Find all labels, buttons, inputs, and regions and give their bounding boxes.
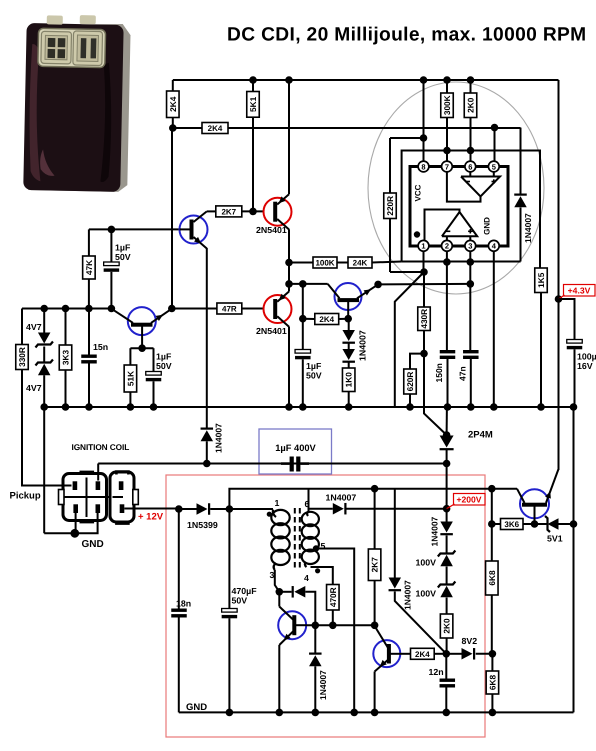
wire base rail y229 bbox=[89, 228, 181, 230]
wire bus to connector gnd bbox=[43, 407, 45, 533]
wire bottom ground bus bbox=[179, 711, 574, 713]
wire 1uF a bottom bbox=[110, 272, 112, 309]
svg-text:18n: 18n bbox=[176, 599, 191, 609]
IC pin 3 bbox=[465, 240, 476, 251]
node sense/zeners bbox=[40, 305, 48, 313]
svg-text:150n: 150n bbox=[434, 363, 444, 382]
svg-text:3: 3 bbox=[468, 242, 472, 251]
label +200V bbox=[454, 494, 486, 506]
svg-text:2K0: 2K0 bbox=[442, 618, 452, 634]
transistor Q5 (blue NPN pickup) bbox=[128, 307, 156, 335]
svg-text:1: 1 bbox=[421, 242, 425, 251]
node Q4 base / 2K4 bbox=[344, 315, 352, 323]
wire base to 5V1 bbox=[535, 523, 548, 525]
T1 phase dot secondary bbox=[315, 568, 320, 573]
wire chain b bbox=[446, 536, 448, 554]
svg-text:51K: 51K bbox=[125, 371, 135, 386]
svg-text:IGNITION COIL: IGNITION COIL bbox=[72, 442, 130, 452]
svg-text:470R: 470R bbox=[328, 587, 338, 607]
wire 3K3 bottom bbox=[65, 370, 67, 407]
capacitor C 1uF 50V a bbox=[104, 262, 120, 266]
resistor 2K4 (horizontal b) bbox=[315, 314, 339, 325]
wire 47R rail bbox=[172, 308, 217, 310]
resistor 220R (vertical) bbox=[384, 193, 397, 219]
svg-text:VCC: VCC bbox=[414, 184, 423, 201]
resistor 470R (vertical) bbox=[327, 585, 340, 611]
wire 100K rail a bbox=[289, 262, 313, 264]
svg-text:50V: 50V bbox=[232, 596, 248, 606]
node 3K6 row left bbox=[488, 520, 496, 528]
node bus/150n bbox=[444, 403, 452, 411]
node bus/Q3 collector bbox=[285, 403, 293, 411]
wire T1 pin5 tap bbox=[317, 549, 354, 713]
wire 6K8a wires bbox=[491, 524, 493, 561]
svg-text:16V: 16V bbox=[577, 361, 593, 371]
svg-text:15n: 15n bbox=[93, 342, 108, 352]
node y284 left a bbox=[285, 280, 293, 288]
wire 1K0 to bus bbox=[348, 392, 350, 408]
wire 300K top bbox=[446, 80, 448, 93]
wire Q2 emitter up bbox=[288, 80, 290, 194]
resistor 6K8a (vertical) bbox=[486, 561, 499, 595]
zener 4V7 lower bbox=[35, 360, 53, 366]
node pin8 column / 220R wire bbox=[420, 134, 428, 142]
wire 3K6 stub bbox=[492, 523, 501, 525]
wire D2 to coil wire bbox=[206, 441, 208, 463]
diode D10 1N4007 bbox=[440, 522, 453, 533]
resistor 24K (horizontal) bbox=[348, 257, 372, 268]
node 8V2/6K8 row bbox=[489, 650, 497, 658]
svg-text:47R: 47R bbox=[222, 305, 237, 314]
svg-text:2N5401: 2N5401 bbox=[256, 326, 287, 336]
svg-text:2K4: 2K4 bbox=[168, 96, 178, 112]
node bus/pin4 bbox=[490, 403, 498, 411]
resistor 3K3 (vertical) bbox=[59, 345, 72, 370]
IC pin1 marker dot bbox=[414, 231, 420, 237]
node sense/47R bbox=[168, 305, 176, 313]
diode D3 1N4007 (right of IC) bbox=[514, 194, 527, 196]
svg-text:1: 1 bbox=[275, 498, 280, 508]
wire 5V1 to right col bbox=[559, 523, 574, 525]
wire 5K1 top bbox=[252, 80, 254, 92]
T1 phase dot primary bbox=[267, 512, 272, 517]
svg-text:2P4M: 2P4M bbox=[468, 430, 493, 441]
node +200V bbox=[443, 505, 451, 513]
wire 470uF top bbox=[228, 509, 230, 609]
svg-text:8: 8 bbox=[421, 162, 425, 171]
node bus/1K0 bbox=[345, 403, 353, 411]
wire to 1N5399 bbox=[179, 508, 197, 510]
wire base row y625 bbox=[306, 624, 375, 626]
wire 300K to pin7 bbox=[446, 118, 448, 162]
wire 12n top bbox=[445, 654, 447, 679]
wire 12n bottom bbox=[445, 688, 447, 713]
wire 470R to base row bbox=[332, 610, 334, 625]
wire D9 diagonal bbox=[395, 592, 447, 654]
wire chain d bbox=[446, 598, 448, 615]
transistor Q2 2N5401 (red PNP) bbox=[264, 198, 292, 226]
diode D5 1N4007 b bbox=[342, 349, 355, 360]
wire 15n bottom bbox=[88, 364, 90, 408]
resistor 300K (vertical) bbox=[441, 93, 454, 118]
node bbus/470uF bbox=[226, 709, 234, 717]
wire bias column down bbox=[171, 128, 173, 309]
resistor 5K1 (vertical) bbox=[247, 92, 260, 118]
wire zener stub top bbox=[43, 309, 45, 333]
wire 47n to bus bbox=[470, 359, 472, 407]
node 2K0/2K4/8V2/12n bbox=[443, 650, 451, 658]
wire D8 column bbox=[314, 625, 316, 652]
wire Q8 emitter bbox=[374, 672, 376, 713]
wire BC pin to gnd bbox=[44, 513, 97, 533]
zener 4V7 upper bbox=[38, 333, 51, 344]
wire ground bus bbox=[44, 406, 573, 408]
wire 2K7c bottom bbox=[374, 581, 376, 626]
wire Q2 collector down bbox=[288, 229, 290, 262]
svg-text:1N4007: 1N4007 bbox=[430, 516, 440, 546]
wire 18n top bbox=[178, 509, 180, 609]
node 12V/18n bbox=[175, 505, 183, 513]
wire right rail down bbox=[558, 80, 560, 470]
op-amp IC U1 body bbox=[410, 167, 508, 247]
wire 47R to Q3 base bbox=[242, 308, 265, 310]
svg-text:50V: 50V bbox=[115, 252, 131, 262]
wire Q3 emitter up bbox=[288, 284, 290, 292]
node y284 right / Q4 emitter bbox=[374, 281, 382, 289]
wire T1 pin6 up bbox=[308, 489, 310, 512]
transistor Q3 2N5401 (red PNP) bbox=[264, 295, 292, 323]
svg-text:47n: 47n bbox=[458, 366, 468, 381]
svg-text:Pickup: Pickup bbox=[10, 491, 41, 502]
wire 24K to IC rail bbox=[372, 262, 402, 263]
wire y284 right rail bbox=[378, 283, 470, 286]
node bbus/6K8b bbox=[489, 709, 497, 717]
IC pin 1 bbox=[418, 240, 429, 251]
wire 1uF b bottom bbox=[153, 381, 155, 407]
node base row/2K7c bbox=[371, 622, 379, 630]
node coil/thyristor bbox=[443, 460, 451, 468]
capacitor C 1uF 50V c bbox=[295, 350, 311, 354]
wire 2K7 to node bbox=[242, 210, 265, 212]
wire chain c bbox=[446, 567, 448, 585]
capacitor main 1uF400V plates bbox=[290, 457, 294, 472]
svg-text:1K0: 1K0 bbox=[344, 372, 354, 388]
resistor 2K4 (vertical) bbox=[167, 91, 180, 118]
wire ignition coil line bbox=[98, 463, 446, 465]
svg-text:50V: 50V bbox=[156, 361, 172, 371]
wire pin2 column to 150n bbox=[446, 262, 448, 350]
wire T1 pin3 down bbox=[275, 570, 280, 592]
capacitor 18n bbox=[171, 609, 187, 612]
IC pin 6 bbox=[465, 161, 476, 172]
resistor 100K (horizontal) bbox=[313, 257, 337, 268]
svg-text:2K4: 2K4 bbox=[208, 124, 223, 133]
node coil/D2 bbox=[203, 460, 211, 468]
resistor 3K6 (horizontal) bbox=[501, 519, 524, 530]
node sense/47K-15n bbox=[85, 305, 93, 313]
svg-text:2K4: 2K4 bbox=[415, 650, 430, 659]
wire 430R to thyristor diag bbox=[424, 354, 447, 435]
node Q5 base bbox=[138, 344, 146, 352]
node top bus / 300K bbox=[443, 76, 451, 84]
svg-text:5: 5 bbox=[492, 162, 496, 171]
node pin3 lower bbox=[467, 280, 475, 288]
wire y138 stub bbox=[390, 137, 424, 139]
svg-text:8V2: 8V2 bbox=[462, 636, 478, 646]
transistor Q1 (blue NPN) bbox=[180, 216, 208, 244]
svg-text:1N4007: 1N4007 bbox=[214, 423, 224, 453]
thyristor 2P4M bbox=[440, 436, 454, 448]
node 2K4b / 1uF col bbox=[299, 315, 307, 323]
capacitor C 1uF 50V b bbox=[146, 372, 162, 376]
capacitor C-main box 1uF 400V bbox=[259, 429, 332, 474]
node base row/470R bbox=[329, 622, 337, 630]
wire Q5 base row bbox=[130, 347, 153, 349]
resistor 51K (vertical) bbox=[124, 365, 136, 392]
wire to +200V node bbox=[446, 464, 448, 509]
diode D6 1N4007 (rectifier) bbox=[333, 503, 344, 515]
node bus/47n bbox=[467, 403, 475, 411]
wire 15n top bbox=[88, 309, 90, 355]
IC pin 5 bbox=[488, 161, 499, 172]
node 5K1/2K7/Q2 base bbox=[249, 208, 257, 216]
node +12V/2K7c bbox=[371, 485, 379, 493]
node pin2 / input rail bbox=[443, 258, 451, 266]
node bus/1uF bbox=[150, 403, 158, 411]
wire 2K4 column to node bbox=[172, 118, 174, 129]
svg-text:1µF 400V: 1µF 400V bbox=[275, 443, 316, 453]
node pin1 / 220R / 430R bbox=[420, 268, 428, 276]
svg-text:430R: 430R bbox=[419, 309, 429, 329]
wire 470uF bottom bbox=[228, 618, 230, 712]
svg-text:4: 4 bbox=[304, 573, 309, 583]
wire 6K8a column top bbox=[491, 489, 493, 524]
svg-text:1K5: 1K5 bbox=[536, 272, 546, 288]
wire D5 to 1K0 bbox=[348, 363, 350, 369]
wire D9 column bbox=[394, 489, 396, 578]
capacitor 150n bbox=[440, 350, 456, 353]
wire zener bottom bbox=[43, 375, 45, 407]
wire Q3 collector to bus bbox=[288, 327, 290, 407]
svg-text:220R: 220R bbox=[385, 196, 395, 216]
wire T1 pin6 to D6 bbox=[309, 508, 333, 510]
wire comparator output rail y150 bbox=[402, 151, 540, 269]
wire D6 to +200V node bbox=[347, 508, 447, 510]
node 5V1/right col bbox=[570, 520, 578, 528]
svg-text:6K8: 6K8 bbox=[487, 570, 497, 586]
resistor 2K4 (horizontal top) bbox=[202, 123, 228, 134]
wire 220R column lower bbox=[389, 219, 391, 273]
svg-text:2K0: 2K0 bbox=[466, 97, 476, 113]
svg-text:50V: 50V bbox=[306, 371, 322, 381]
inverter section red box bbox=[166, 475, 485, 737]
svg-text:100µ: 100µ bbox=[577, 352, 596, 362]
wire 12V to transformer p1 bbox=[229, 508, 273, 510]
node bus/1uF50V b bbox=[299, 403, 307, 411]
wire bias rail corner down to D3 bbox=[520, 128, 522, 194]
node top bus / Q2 emitter bbox=[285, 76, 293, 84]
diode D4 1N4007 a bbox=[342, 330, 355, 341]
svg-text:100K: 100K bbox=[315, 259, 334, 268]
transistor Q8 (blue NPN control) bbox=[373, 640, 400, 667]
node bus/1K5 bbox=[537, 403, 545, 411]
transistor Q7 (blue NPN inverter) bbox=[278, 611, 306, 639]
diode D9 1N4007 bbox=[389, 578, 402, 589]
svg-text:2K7: 2K7 bbox=[221, 207, 236, 216]
svg-text:470µF: 470µF bbox=[232, 586, 258, 596]
connector 6-pin (CDI plug) bbox=[63, 474, 107, 521]
wire chain a bbox=[446, 509, 448, 522]
resistor 2K0c (vertical) bbox=[440, 614, 453, 638]
zener D12 8V2 bbox=[462, 648, 473, 660]
node y284/1uF col bbox=[299, 280, 307, 288]
wire 330R top bbox=[21, 309, 23, 345]
node bbus/D8 bbox=[312, 709, 320, 717]
diode D7 1N4007 (feedback) bbox=[294, 586, 305, 598]
wire 2K4 column top bbox=[172, 80, 174, 91]
svg-text:1N4007: 1N4007 bbox=[326, 493, 357, 503]
wire 2K0 top bbox=[470, 80, 472, 93]
node output rail / pin7 column bbox=[443, 147, 451, 155]
wire 2K7c top bbox=[374, 489, 376, 549]
wire 1uF b top bbox=[153, 348, 155, 371]
wire coil wire down to connector bbox=[97, 464, 99, 481]
wire 8V2 wires bbox=[446, 653, 461, 655]
wire Q2c to Q3e column bbox=[288, 263, 290, 284]
wire input rail y262 bbox=[402, 261, 521, 263]
wire D4-D5 link bbox=[348, 344, 350, 350]
wire sense rail y308 left bbox=[22, 308, 111, 310]
svg-text:GND: GND bbox=[186, 702, 207, 713]
resistor 2K0 (vertical) bbox=[464, 93, 477, 118]
wire BL pin to gnd bbox=[75, 513, 77, 533]
node Q2 coll / 100K rail bbox=[285, 259, 293, 267]
resistor 2K7 (horizontal) bbox=[216, 206, 242, 217]
wire 47K top corner bbox=[88, 229, 90, 256]
node Q6 base bbox=[531, 520, 539, 528]
IC pin 4 bbox=[488, 240, 499, 251]
zener D11a 100V bbox=[438, 551, 456, 557]
op-amp B (bottom comparator) bbox=[442, 212, 477, 236]
wire D3 to input rail bbox=[520, 208, 522, 262]
svg-text:1N4007: 1N4007 bbox=[318, 670, 328, 700]
diode D8 1N4007 bbox=[309, 653, 322, 655]
resistor 47K (vertical) bbox=[83, 256, 96, 279]
node 430R / 620R bbox=[420, 350, 428, 358]
wire 1uF c bottom bbox=[302, 359, 304, 407]
wire 430R column lower bbox=[423, 331, 425, 354]
wire 3K3 top bbox=[65, 309, 67, 346]
node 2K4 / bias rail bbox=[169, 124, 177, 132]
wire 51K top bbox=[129, 348, 131, 365]
node top bus / 5K1 bbox=[249, 76, 257, 84]
svg-text:1N5399: 1N5399 bbox=[187, 520, 218, 530]
svg-text:1N4007: 1N4007 bbox=[403, 580, 413, 610]
svg-text:2: 2 bbox=[445, 242, 449, 251]
node bus/zeners bbox=[40, 403, 48, 411]
capacitor 15n bbox=[81, 355, 97, 358]
wire D7 left bbox=[279, 591, 291, 593]
IC pin 8 bbox=[418, 161, 429, 172]
CDI unit photograph bbox=[23, 14, 131, 192]
wire bias rail y128 bbox=[173, 127, 521, 129]
svg-text:330R: 330R bbox=[17, 347, 27, 367]
node GND connector bbox=[70, 529, 79, 538]
node output rail / pin6 column bbox=[467, 147, 475, 155]
svg-text:3K6: 3K6 bbox=[504, 520, 519, 529]
svg-text:620R: 620R bbox=[405, 372, 415, 392]
transformer T1 windings bbox=[271, 510, 289, 525]
wire 150n to bus bbox=[447, 359, 449, 407]
wire T1 pin4 lead bbox=[311, 567, 333, 585]
wire D7 right corner bbox=[305, 592, 315, 626]
wire y284 left rail bbox=[289, 283, 328, 285]
wire 3K6 to base bbox=[523, 523, 535, 525]
node bus/51K bbox=[127, 403, 135, 411]
svg-text:5K1: 5K1 bbox=[248, 96, 258, 112]
wire +4.3V to 100u bbox=[559, 299, 575, 340]
svg-text:5V1: 5V1 bbox=[547, 534, 563, 544]
zener D11b 100V bbox=[438, 582, 456, 588]
svg-text:300K: 300K bbox=[442, 95, 452, 115]
label +4.3V bbox=[564, 285, 596, 297]
node base row/D8 col bbox=[312, 622, 320, 630]
wire pin2 down bbox=[446, 251, 448, 262]
wire pin4 column bbox=[493, 251, 495, 407]
svg-text:1µF: 1µF bbox=[306, 361, 322, 371]
svg-text:100V: 100V bbox=[416, 589, 437, 599]
wire pin8 column bbox=[423, 80, 425, 162]
wire 51K bottom bbox=[129, 392, 131, 407]
capacitor 100u 16V bbox=[567, 340, 583, 344]
wire Q1 emitter column bbox=[206, 248, 208, 428]
node bbus/Q7e bbox=[276, 709, 284, 717]
wire 1K5 to bus bbox=[540, 293, 542, 408]
capacitor 12n bbox=[440, 679, 456, 682]
wire 1N5399 to node bbox=[210, 508, 229, 510]
wire pin1 to node bbox=[423, 251, 425, 272]
svg-text:+4.3V: +4.3V bbox=[568, 286, 591, 296]
svg-text:100V: 100V bbox=[416, 558, 437, 568]
wire pin3 column lower bbox=[469, 262, 471, 350]
wire Q7 emitter bbox=[278, 645, 280, 712]
resistor 1K0 (vertical) bbox=[342, 368, 355, 392]
wire 2K4b left bbox=[303, 318, 315, 320]
wire D8 to bus bbox=[314, 666, 316, 712]
svg-text:DC CDI, 20 Millijoule, max. 10: DC CDI, 20 Millijoule, max. 10000 RPM bbox=[227, 25, 587, 46]
svg-text:7: 7 bbox=[445, 162, 449, 171]
svg-text:1µF: 1µF bbox=[156, 352, 172, 362]
wire top +4.3V bus bbox=[173, 79, 559, 81]
resistor 2K7c (vertical) bbox=[368, 549, 381, 581]
wire 220R to pin1 node bbox=[390, 271, 424, 273]
diode D1 1N5399 bbox=[197, 503, 208, 515]
svg-text:1µF: 1µF bbox=[115, 243, 131, 253]
svg-text:12n: 12n bbox=[429, 667, 444, 677]
resistor 47R (horizontal) bbox=[217, 303, 242, 314]
node bbus/Q8e bbox=[371, 709, 379, 717]
node thyristor anode bbox=[443, 431, 451, 439]
svg-text:47K: 47K bbox=[84, 260, 94, 275]
IC pin 2 bbox=[442, 240, 453, 251]
svg-text:+ 12V: + 12V bbox=[138, 512, 164, 523]
svg-text:3K3: 3K3 bbox=[61, 350, 71, 366]
node T1 tap bbox=[313, 545, 319, 551]
wire 2K4c to node bbox=[434, 653, 446, 655]
wire 47K bottom bbox=[88, 279, 90, 309]
wire 18n bottom bbox=[178, 618, 180, 713]
wire 2K4b right bbox=[339, 318, 349, 320]
